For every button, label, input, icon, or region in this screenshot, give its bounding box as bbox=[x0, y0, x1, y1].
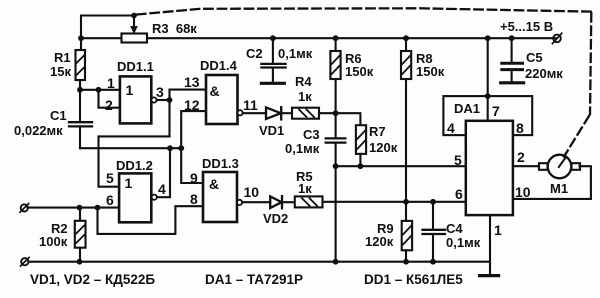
svg-text:1: 1 bbox=[125, 175, 133, 191]
svg-text:DD1.4: DD1.4 bbox=[200, 58, 238, 73]
label C2 0,1mk bbox=[246, 46, 313, 61]
node pin2 branch junction bbox=[96, 87, 102, 93]
svg-text:C1: C1 bbox=[50, 108, 67, 123]
caption DA1 TA7291P bbox=[205, 272, 303, 287]
pin number 13 bbox=[184, 74, 200, 90]
svg-text:VD1: VD1 bbox=[259, 123, 284, 138]
wire ground rail bbox=[29, 261, 490, 263]
wire top-left loop from R1 top up to R3 wiper junction bbox=[81, 16, 134, 51]
terminal input lower bbox=[21, 257, 30, 266]
resistor R1 bbox=[76, 50, 86, 80]
svg-text:R1: R1 bbox=[54, 50, 71, 65]
resistor R4 bbox=[292, 108, 319, 119]
node R2 bottom rail junction bbox=[77, 259, 83, 265]
node X junction R1/C1/DD1.1 inputs bbox=[77, 87, 83, 93]
svg-text:5: 5 bbox=[454, 152, 462, 168]
svg-text:10: 10 bbox=[515, 184, 531, 200]
label R9 120k bbox=[365, 221, 394, 249]
potentiometer R3 body bbox=[122, 34, 148, 43]
wire DA1 supply loop box bbox=[443, 96, 532, 135]
pin number 2 bbox=[105, 97, 113, 113]
svg-text:1: 1 bbox=[107, 75, 115, 91]
label DD1.3 bbox=[202, 156, 239, 192]
svg-text:0,022мк: 0,022мк bbox=[14, 123, 63, 138]
node pin7 supply junction bbox=[485, 35, 491, 41]
node C4 top junction bbox=[430, 199, 436, 205]
node B junction C3/R7/pin5 bbox=[333, 163, 339, 169]
wire DA1 pin 7 from supply bbox=[487, 38, 489, 121]
node pin8 branch junction bbox=[95, 205, 101, 211]
svg-text:0,1мк: 0,1мк bbox=[446, 235, 481, 250]
svg-text:C5: C5 bbox=[526, 50, 543, 65]
resistor R8 bbox=[401, 38, 411, 202]
svg-text:DD1.3: DD1.3 bbox=[202, 156, 239, 171]
svg-text:DD1.1: DD1.1 bbox=[117, 59, 154, 74]
label M1 bbox=[550, 181, 568, 196]
svg-text:0,1мк: 0,1мк bbox=[285, 141, 320, 156]
node R7 bottom junction bbox=[358, 163, 364, 169]
wire node B to DA1 pin 5 bbox=[336, 165, 466, 167]
capacitor C1 bbox=[69, 90, 92, 148]
svg-text:DA1: DA1 bbox=[454, 101, 480, 116]
svg-text:120к: 120к bbox=[365, 234, 394, 249]
svg-text:C2: C2 bbox=[246, 46, 263, 61]
node R2 top junction bbox=[77, 205, 83, 211]
wire DD1.1 output to node bbox=[157, 99, 170, 101]
ground C2 bbox=[261, 82, 284, 85]
svg-text:2: 2 bbox=[105, 97, 113, 113]
resistor R7 bbox=[356, 125, 366, 166]
capacitor C5 bbox=[502, 38, 523, 81]
wire R5 to DA1 pin 6 bbox=[323, 201, 466, 203]
label R7 120k bbox=[369, 124, 398, 155]
svg-text:M1: M1 bbox=[550, 181, 568, 196]
motor M1 bbox=[539, 155, 580, 179]
wire R1 bottom to node X bbox=[79, 80, 81, 90]
svg-text:&: & bbox=[209, 176, 219, 192]
gate DD1.4 bbox=[206, 75, 243, 124]
node DD1.1 output junction bbox=[167, 97, 173, 103]
node A junction R4/R6/C3/R7 bbox=[333, 110, 339, 116]
wire VD2 to R5 bbox=[282, 201, 295, 203]
label R6 150k bbox=[345, 51, 374, 79]
svg-text:6: 6 bbox=[455, 186, 463, 202]
ground C5 bbox=[501, 81, 524, 84]
svg-text:3: 3 bbox=[156, 84, 164, 100]
pin number 2 bbox=[517, 149, 525, 165]
wire DA1 pin 2 to motor bbox=[513, 165, 539, 167]
wire DD1.3 output to VD2 bbox=[242, 201, 270, 203]
wire motor to DA1 pin 10 bbox=[513, 166, 591, 199]
pin number 9 bbox=[190, 170, 198, 186]
wire bus down to DD1.3 pin 9 bbox=[181, 148, 203, 183]
gate DD1.3 bbox=[203, 172, 242, 222]
gate DD1.1 bbox=[120, 76, 157, 123]
capacitor C2 bbox=[261, 38, 285, 82]
svg-text:220мк: 220мк bbox=[525, 66, 563, 81]
svg-text:1: 1 bbox=[494, 222, 502, 238]
label VD1 bbox=[259, 123, 284, 138]
svg-text:8: 8 bbox=[190, 191, 198, 207]
resistor R6 bbox=[330, 38, 340, 113]
wire DD1.1 output up to pin 13 bbox=[170, 90, 207, 137]
svg-text:DD1.2: DD1.2 bbox=[116, 158, 153, 173]
svg-text:VD2: VD2 bbox=[263, 211, 288, 226]
node R8 R9 junction bbox=[403, 199, 409, 205]
wire bus C1 bottom to DD1.2 output node bbox=[80, 147, 183, 149]
label DD1.2 bbox=[116, 158, 153, 191]
label R8 150k bbox=[416, 51, 445, 79]
pin number 7 bbox=[492, 103, 500, 119]
wire DA1 pin 1 to ground bbox=[489, 215, 491, 274]
wire R4 to node A bbox=[319, 112, 336, 114]
label +5...15 V bbox=[500, 19, 553, 34]
svg-text:0,1мк: 0,1мк bbox=[278, 46, 313, 61]
pin number 5 bbox=[106, 170, 114, 186]
svg-text:DA1 – TA7291P: DA1 – TA7291P bbox=[205, 272, 303, 287]
resistor R9 bbox=[402, 202, 412, 262]
node R9 rail junction bbox=[403, 259, 409, 265]
svg-text:9: 9 bbox=[190, 170, 198, 186]
resistor R2 bbox=[75, 208, 86, 262]
svg-text:13: 13 bbox=[184, 74, 200, 90]
pin number 6 bbox=[106, 192, 114, 208]
diode VD2 bbox=[270, 196, 282, 208]
svg-text:8: 8 bbox=[516, 120, 524, 136]
label R2 100k bbox=[39, 221, 68, 249]
label DD1.4 bbox=[200, 58, 238, 99]
node R1 top / R3 left junction bbox=[78, 35, 84, 41]
pin number 4 bbox=[447, 120, 455, 136]
wire DD1.2 output up to bus bbox=[157, 148, 170, 197]
label DA1 bbox=[454, 101, 480, 116]
svg-text:15к: 15к bbox=[50, 64, 71, 79]
wire node X to DD1.1 pin 1 bbox=[80, 89, 120, 91]
svg-text:1: 1 bbox=[126, 82, 134, 98]
pin number 10 DA1 bbox=[515, 184, 531, 200]
capacitor C3 bbox=[326, 113, 346, 166]
svg-text:10: 10 bbox=[244, 184, 260, 200]
node C2 supply junction bbox=[270, 35, 276, 41]
pin number 4 bbox=[158, 181, 166, 197]
pin number 1 DA1 bbox=[494, 222, 502, 238]
svg-text:R3 68к: R3 68к bbox=[152, 21, 197, 36]
node R8 supply junction bbox=[403, 35, 409, 41]
label VD2 bbox=[263, 211, 288, 226]
svg-text:R4: R4 bbox=[295, 74, 312, 89]
svg-text:1к: 1к bbox=[298, 89, 312, 104]
svg-text:120к: 120к bbox=[369, 140, 398, 155]
svg-text:C3: C3 bbox=[303, 127, 320, 142]
wire loop DD1.1 out to DD1.2 pin 5 bbox=[99, 136, 170, 186]
wire pin 12 down to bus bbox=[181, 111, 206, 148]
node C5 supply junction bbox=[509, 35, 515, 41]
svg-text:C4: C4 bbox=[446, 221, 463, 236]
diode VD1 bbox=[266, 107, 281, 119]
label R1 15k bbox=[50, 50, 71, 79]
node R6 supply junction bbox=[333, 35, 339, 41]
svg-text:VD1, VD2 – КД522Б: VD1, VD2 – КД522Б bbox=[30, 272, 155, 287]
svg-text:5: 5 bbox=[106, 170, 114, 186]
pin number 1 bbox=[107, 75, 115, 91]
wire node B down to ground rail bbox=[335, 166, 337, 262]
pin number 8 bbox=[516, 120, 524, 136]
svg-text:1к: 1к bbox=[298, 181, 312, 196]
svg-text:7: 7 bbox=[492, 103, 500, 119]
pin number 12 bbox=[184, 97, 200, 113]
pin number 5 DA1 bbox=[454, 152, 462, 168]
svg-text:DD1 – К561ЛЕ5: DD1 – К561ЛЕ5 bbox=[364, 272, 463, 287]
node pin12 bus junction bbox=[178, 145, 184, 151]
pin number 10 bbox=[244, 184, 260, 200]
label C3 0,1mk bbox=[285, 127, 320, 156]
svg-text:+5...15 В: +5...15 В bbox=[500, 19, 553, 34]
label R5 1k bbox=[296, 169, 313, 196]
label R4 1k bbox=[295, 74, 312, 104]
node B rail junction bbox=[333, 259, 339, 265]
pin number 11 bbox=[243, 97, 258, 113]
caption DD1 K561LE5 bbox=[364, 272, 463, 287]
svg-text:&: & bbox=[210, 83, 220, 99]
wire R7 top loop bbox=[336, 113, 361, 125]
wire pin2 branch bbox=[99, 90, 120, 108]
wire R3 left lead bbox=[81, 37, 122, 39]
label R3 68k bbox=[152, 21, 197, 36]
wire pin8 loop bbox=[98, 206, 204, 234]
pin number 8 bbox=[190, 191, 198, 207]
svg-text:4: 4 bbox=[158, 181, 166, 197]
gate DD1.2 bbox=[119, 173, 157, 222]
svg-text:R7: R7 bbox=[369, 124, 386, 139]
svg-text:11: 11 bbox=[243, 97, 258, 113]
svg-text:150к: 150к bbox=[345, 64, 374, 79]
label C5 220mk bbox=[525, 50, 563, 81]
node R3 wiper top junction bbox=[131, 13, 137, 19]
node DD1.2 output bus junction bbox=[167, 145, 173, 151]
caption VD1 VD2 KD522B bbox=[30, 272, 155, 287]
ground main bbox=[480, 274, 499, 277]
svg-text:2: 2 bbox=[517, 149, 525, 165]
chip DA1 body bbox=[466, 121, 513, 215]
node C4 rail junction bbox=[430, 259, 436, 265]
pin number 6 DA1 bbox=[455, 186, 463, 202]
label C1 0,022mk bbox=[14, 108, 67, 138]
pin number 3 bbox=[156, 84, 164, 100]
svg-text:150к: 150к bbox=[416, 64, 445, 79]
resistor R5 bbox=[295, 196, 323, 207]
capacitor C4 bbox=[423, 202, 446, 262]
wire DD1.4 output to VD1 bbox=[243, 112, 266, 114]
svg-text:4: 4 bbox=[447, 120, 455, 136]
wire supply rail y=38.2 bbox=[147, 37, 557, 39]
label DD1.1 bbox=[117, 59, 154, 98]
label C4 0,1mk bbox=[446, 221, 481, 250]
wire VD1 to R4 bbox=[281, 112, 292, 114]
potentiometer R3 wiper arrow bbox=[131, 16, 137, 34]
node pin7 loop junction bbox=[485, 93, 491, 99]
dashed mechanical link R3 to M1 bbox=[137, 8, 591, 156]
svg-text:6: 6 bbox=[106, 192, 114, 208]
terminal supply bbox=[552, 33, 561, 43]
svg-text:100к: 100к bbox=[39, 234, 68, 249]
terminal input upper bbox=[20, 204, 29, 213]
wire input to DD1.2 pin 6 bbox=[28, 207, 120, 209]
